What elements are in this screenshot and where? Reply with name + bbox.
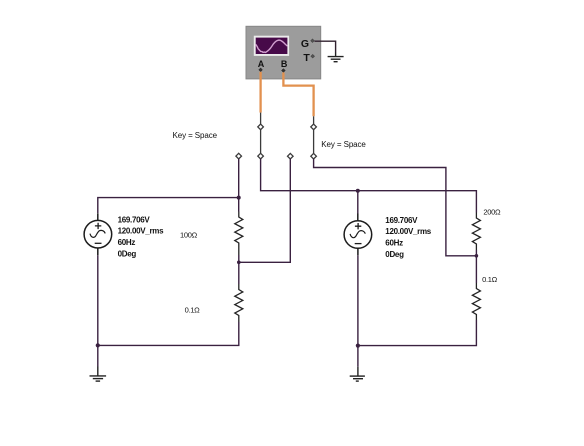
label V1 values xyxy=(118,215,164,258)
oscilloscope terminal A label xyxy=(258,59,265,69)
wire scope B to switch J2 (orange) xyxy=(283,72,313,116)
svg-text:169.706V: 169.706V xyxy=(385,216,418,225)
wire R1 bottom to left mid node xyxy=(238,255,240,262)
svg-text:60Hz: 60Hz xyxy=(118,238,136,247)
wire right mid node to R4 xyxy=(475,256,477,283)
svg-text:120.00V_rms: 120.00V_rms xyxy=(385,227,431,236)
ground symbol at V2 xyxy=(350,367,365,381)
oscilloscope pin T xyxy=(311,54,315,58)
svg-text:A: A xyxy=(258,59,265,69)
wire J1 throw down to node R1 top xyxy=(238,159,240,212)
svg-text:120.00V_rms: 120.00V_rms xyxy=(118,226,164,235)
svg-text:0.1Ω: 0.1Ω xyxy=(482,275,498,284)
resistor R3 xyxy=(472,213,480,251)
oscilloscope XSC1 body xyxy=(246,26,321,79)
svg-text:Key = Space: Key = Space xyxy=(173,131,218,140)
label R4 0.1 ohm xyxy=(482,275,498,284)
wire scope G to ground xyxy=(315,41,336,52)
oscilloscope terminal B label xyxy=(281,59,288,69)
switch J2 xyxy=(311,116,317,159)
wire left mid node to R2 xyxy=(238,262,240,284)
junction V1 top node xyxy=(237,196,241,200)
switch J1 throw terminal xyxy=(236,153,242,159)
wire R4 bottom to V2 ground bus xyxy=(358,320,477,346)
oscilloscope pin G xyxy=(311,39,315,43)
label Key = Space (J2) xyxy=(321,140,366,149)
AC source V1 xyxy=(84,213,112,255)
switch J1 xyxy=(258,113,264,159)
resistor R2 xyxy=(235,284,243,322)
svg-text:0Deg: 0Deg xyxy=(118,249,137,258)
label R2 0.1 ohm xyxy=(185,305,201,314)
oscilloscope XSC1 screen xyxy=(254,36,289,56)
oscilloscope terminal G label xyxy=(301,38,309,50)
svg-text:100Ω: 100Ω xyxy=(180,230,198,239)
ground symbol at scope xyxy=(328,53,344,62)
wire scope A to switch J1 (orange) xyxy=(259,72,261,113)
svg-text:200Ω: 200Ω xyxy=(483,208,501,217)
svg-text:Key = Space: Key = Space xyxy=(321,140,366,149)
svg-text:60Hz: 60Hz xyxy=(385,239,403,248)
junction V2 top node xyxy=(356,189,360,193)
svg-text:0Deg: 0Deg xyxy=(385,250,404,259)
junction left mid node xyxy=(237,261,241,265)
label V2 values xyxy=(385,216,431,259)
wire V1 minus down to ground xyxy=(97,255,99,366)
junction V2 ground node xyxy=(356,344,360,348)
label Key = Space (J1) xyxy=(173,131,218,140)
junction V1 ground node xyxy=(96,343,100,347)
label R3 200 ohm xyxy=(483,208,501,217)
ground symbol at V1 xyxy=(90,367,107,382)
oscilloscope pin A xyxy=(259,68,263,72)
svg-text:0.1Ω: 0.1Ω xyxy=(185,305,201,314)
wire R2 bottom to ground bus xyxy=(98,322,239,345)
wire J2 throw to left mid node xyxy=(239,159,290,262)
junction right mid node xyxy=(475,254,479,258)
resistor R4 xyxy=(472,283,480,320)
svg-text:G: G xyxy=(301,38,309,50)
oscilloscope terminal T label xyxy=(303,52,310,64)
svg-text:B: B xyxy=(281,59,288,69)
wire J1 pole to bus A xyxy=(261,159,477,213)
svg-text:169.706V: 169.706V xyxy=(118,215,151,224)
oscilloscope pin B xyxy=(282,69,286,73)
resistor R1 xyxy=(235,212,243,256)
label R1 100 ohm xyxy=(180,230,198,239)
wire V1 plus to node xyxy=(98,198,239,213)
wire R3 bottom to right mid node xyxy=(475,250,477,256)
wire V2 plus to bus xyxy=(357,191,359,214)
svg-text:T: T xyxy=(303,52,310,64)
AC source V2 xyxy=(344,214,372,256)
wire V2 minus down to ground xyxy=(357,255,359,366)
wire J2 pole to right mid node xyxy=(314,159,477,256)
switch J2 throw terminal xyxy=(288,153,294,159)
